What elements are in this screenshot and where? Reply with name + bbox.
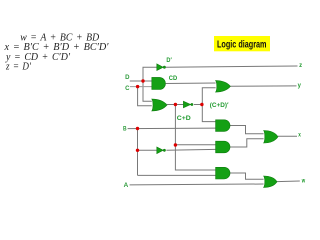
wire C+D bus down to AND G9 top input (175, 145, 215, 170)
wire D bus down to OR G3 top input (143, 81, 152, 101)
svg-text:D′: D′ (166, 58, 172, 64)
svg-text:A: A (124, 183, 129, 189)
svg-text:z: z (299, 63, 302, 69)
wire D bus up to NOT G1 (143, 67, 157, 81)
svg-text:B: B (123, 127, 127, 133)
wire z output (from NOT G1 to z) (166, 66, 298, 67)
wire AND G9 out to OR G11 top input (230, 173, 264, 179)
and-gate G7 (B AND (C+D)') (216, 120, 230, 132)
junction on C line (136, 85, 139, 88)
junction C+D output node (174, 103, 177, 106)
junction B bus at NOT G6 (136, 149, 139, 152)
wire C bus down to OR G3 bottom input (138, 87, 152, 106)
svg-text:C+D: C+D (177, 116, 192, 122)
or-gate G10 (x) (264, 131, 278, 144)
wire C+D bus down with branch to AND G8 top input (174, 105, 176, 146)
not-gate G1 (D') (157, 64, 166, 71)
wire (C+D)' stub after NOT G4 (194, 104, 202, 106)
wire B branch to AND G9 bottom input (138, 174, 216, 176)
junction (C+D)' node (200, 103, 203, 106)
wire x output (OR G10 to x) (278, 135, 297, 137)
title: Logic diagram (214, 36, 270, 51)
junction on D line (141, 79, 144, 82)
svg-text:CD: CD (169, 76, 178, 82)
wire CD (AND G2 out to OR G5 top input) (166, 82, 216, 85)
svg-text:(C+D)′: (C+D)′ (210, 103, 229, 109)
or-gate G3 (C+D) (152, 99, 167, 111)
svg-text:D: D (125, 75, 130, 81)
wire w output (OR G11 to w) (277, 180, 300, 183)
junction on B line (136, 127, 139, 130)
wire B' (NOT G6 out to AND G8 bottom input) (166, 148, 215, 151)
wire AND G8 out to OR G10 bottom input (230, 139, 264, 147)
junction C+D bus at AND G8 branch (174, 143, 177, 146)
wire D input to AND G2 (130, 80, 152, 82)
svg-text:C: C (125, 86, 130, 92)
not-gate G4 ((C+D)') (183, 101, 193, 108)
svg-text:z = D′: z = D′ (5, 62, 32, 73)
svg-text:w: w (301, 179, 305, 185)
wire B input to AND G7 bottom input (128, 127, 216, 130)
wire B bus down (137, 129, 139, 176)
svg-text:y: y (298, 83, 302, 89)
wire (C+D)' bus up to OR G5 bottom input (202, 88, 215, 105)
wire C+D branch to AND G8 (175, 144, 215, 146)
and-gate G9 (B AND (C+D)) (216, 167, 230, 179)
svg-text:Logic diagram: Logic diagram (217, 39, 267, 50)
and-gate G8 (B' AND (C+D)) (216, 141, 230, 153)
wire C+D (OR G3 out to NOT G4) (167, 104, 183, 106)
and-gate G2 (CD) (152, 77, 166, 89)
wire AND G7 out to OR G10 top input (230, 126, 264, 134)
or-gate G5 (y = CD + (C+D)') (216, 81, 231, 93)
wire A input to OR G11 bottom input (130, 183, 264, 186)
or-gate G11 (w) (264, 176, 277, 187)
svg-text:x: x (298, 132, 301, 138)
wire C input to AND G2 (130, 86, 152, 88)
not-gate G6 (B') (157, 147, 166, 154)
wire y output (OR G5 to y) (230, 85, 296, 87)
wire (C+D)' bus down to AND G7 top input (202, 105, 215, 122)
wire B to NOT G6 (138, 149, 157, 151)
